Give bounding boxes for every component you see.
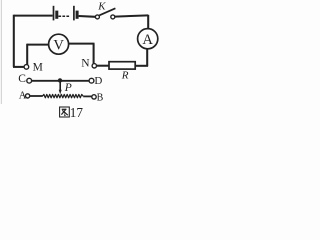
wire voltmeter left horizontal bbox=[27, 44, 48, 46]
wire left vertical bbox=[13, 15, 15, 67]
svg-text:P: P bbox=[64, 82, 72, 94]
junction dot on rail bbox=[58, 78, 62, 82]
svg-text:R: R bbox=[121, 69, 129, 81]
caption glyph 图 box bbox=[60, 107, 70, 117]
wire switch to top-right corner bbox=[115, 15, 149, 16]
wire battery to switch bbox=[79, 15, 96, 18]
svg-text:K: K bbox=[97, 0, 106, 12]
wire top-left horizontal bbox=[14, 15, 53, 17]
terminal B circle bbox=[92, 95, 96, 99]
terminal C circle bbox=[27, 78, 32, 83]
svg-text:N: N bbox=[81, 58, 90, 70]
battery dashed link bbox=[58, 15, 69, 17]
terminal M circle bbox=[24, 65, 29, 70]
wire to resistor right end bbox=[135, 65, 148, 67]
wire C to D rail bbox=[32, 80, 90, 82]
wire rheostat to B bbox=[83, 95, 92, 97]
svg-text:A: A bbox=[142, 32, 153, 48]
wire N riser to voltmeter level bbox=[93, 44, 95, 64]
battery cell 1 long plate bbox=[53, 6, 55, 21]
terminal A circle bbox=[26, 94, 30, 98]
wire ammeter down bbox=[146, 49, 148, 66]
terminal D circle bbox=[89, 78, 94, 83]
svg-text:M: M bbox=[33, 62, 43, 74]
resistor R box bbox=[109, 62, 135, 69]
terminal N circle bbox=[92, 64, 96, 68]
voltmeter U2 circle bbox=[49, 34, 69, 54]
wire M riser bbox=[26, 44, 28, 65]
scan edge artifact line bbox=[0, 0, 2, 104]
svg-text:17: 17 bbox=[70, 105, 84, 120]
svg-text:B: B bbox=[97, 92, 104, 103]
caption glyph 图 inner strokes bbox=[61, 109, 67, 116]
wire resistor to N bbox=[96, 65, 109, 67]
wire right vertical to ammeter bbox=[147, 15, 149, 29]
battery cell 2 long plate bbox=[73, 6, 75, 21]
battery cell 2 thick plate bbox=[76, 11, 79, 19]
svg-text:C: C bbox=[18, 73, 26, 85]
switch K left contact bbox=[95, 15, 99, 19]
switch K right contact bbox=[111, 15, 115, 19]
battery cell 1 thick plate bbox=[55, 11, 58, 19]
svg-text:D: D bbox=[94, 75, 102, 87]
wire voltmeter right horizontal bbox=[69, 43, 95, 45]
slider arrowhead P bbox=[59, 90, 62, 95]
wire A to rheostat bbox=[30, 95, 43, 97]
svg-text:V: V bbox=[53, 37, 64, 53]
switch K blade bbox=[99, 8, 115, 15]
slider stem from junction bbox=[59, 82, 61, 90]
wire bottom-left to M bbox=[13, 66, 24, 68]
rheostat wire zigzag bbox=[42, 94, 83, 97]
ammeter U1 circle bbox=[138, 29, 158, 49]
